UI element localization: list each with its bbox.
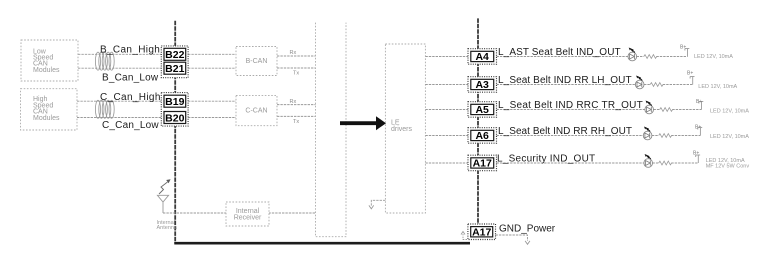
wire B_Can_High module to B22: [78, 53, 164, 55]
svg-text:Tx: Tx: [293, 119, 299, 125]
wire B22 to B-CAN: [188, 53, 236, 55]
wire GND pin to chassis ground: [496, 235, 528, 241]
ground (LE drivers): [369, 205, 374, 208]
wire LE drivers to A3: [425, 84, 468, 86]
svg-text:A3: A3: [475, 79, 489, 91]
internal receiver block: [226, 202, 269, 226]
svg-text:Antenna: Antenna: [157, 225, 178, 231]
pin B22: [164, 48, 186, 60]
antenna RF squiggle arrow: [159, 182, 168, 194]
module box High Speed CAN Modules: [21, 89, 78, 130]
power terminal B+ (row 1): [685, 49, 689, 57]
row A17 output wire: [497, 162, 699, 164]
twisted pair symbol C-CAN: [95, 100, 114, 118]
svg-text:B+: B+: [696, 99, 702, 105]
svg-text:C_Can_Low: C_Can_Low: [102, 120, 159, 131]
wire LE drivers to A6: [425, 135, 468, 137]
LED D2: [635, 76, 644, 89]
svg-text:Rx: Rx: [290, 50, 297, 56]
svg-text:LED 12V, 10mA: LED 12V, 10mA: [698, 84, 737, 90]
wire LE drivers to A5: [425, 109, 468, 111]
svg-text:A4: A4: [475, 51, 489, 63]
svg-text:A17: A17: [473, 158, 492, 170]
svg-text:LED 12V, 10mA: LED 12V, 10mA: [710, 134, 749, 140]
resistor R3: [660, 108, 673, 112]
svg-text:Tx: Tx: [293, 71, 299, 77]
svg-text:LED 12V, 10mA: LED 12V, 10mA: [710, 108, 749, 114]
svg-text:GND_Power: GND_Power: [499, 224, 556, 235]
pin B20: [164, 112, 186, 124]
module box Low Speed CAN Modules: [21, 40, 78, 81]
svg-text:L_Seat Belt IND RR RH_OUT: L_Seat Belt IND RR RH_OUT: [498, 126, 632, 137]
connector pin A4: [468, 49, 497, 64]
row A3 output wire: [497, 84, 693, 86]
connector B22/B21 outer shell: [161, 46, 188, 78]
connector pin A5: [468, 102, 497, 118]
svg-text:Rx: Rx: [290, 99, 297, 105]
svg-text:C_Can_High: C_Can_High: [100, 92, 161, 103]
row A5 output wire: [497, 109, 702, 111]
svg-text:B-CAN: B-CAN: [246, 58, 268, 65]
LED D3: [645, 101, 654, 114]
svg-text:A17: A17: [472, 227, 491, 239]
thick bottom ground rail: [174, 242, 470, 245]
LED D4: [643, 127, 652, 140]
left ECU bus line: [174, 21, 176, 244]
power terminal B+ (row 3): [699, 102, 703, 110]
wire B_Can_Low module to B21: [78, 67, 164, 69]
svg-text:B+: B+: [695, 124, 701, 130]
resistor R2: [650, 83, 663, 87]
gauge mark left of GND pin: [463, 234, 467, 240]
row A6 output wire: [497, 135, 701, 137]
LE drivers block: [385, 44, 425, 213]
wire B-CAN Rx: [277, 55, 316, 57]
svg-text:Receiver: Receiver: [234, 214, 262, 221]
micom block (tall dashed): [316, 23, 347, 237]
resistor R4: [659, 134, 672, 138]
svg-text:L_AST Seat Belt IND_OUT: L_AST Seat Belt IND_OUT: [498, 47, 621, 58]
svg-text:C-CAN: C-CAN: [245, 108, 267, 115]
wire LE drivers to A4: [425, 56, 468, 58]
resistor R1: [644, 55, 657, 59]
svg-text:Modules: Modules: [33, 115, 60, 122]
svg-text:B21: B21: [165, 63, 184, 75]
svg-text:B19: B19: [165, 96, 184, 108]
svg-text:L_Seat Belt IND RRC TR_OUT: L_Seat Belt IND RRC TR_OUT: [498, 100, 643, 111]
wire antenna to internal receiver: [163, 212, 316, 214]
svg-text:drivers: drivers: [391, 126, 413, 133]
svg-text:A5: A5: [475, 104, 489, 116]
connector pin A6: [468, 128, 497, 144]
svg-text:B_Can_Low: B_Can_Low: [102, 73, 159, 84]
wire C_Can_Low module to B20: [77, 117, 164, 119]
wire B21 to B-CAN: [188, 67, 236, 69]
pin B21: [164, 62, 186, 74]
wire C-CAN Rx: [277, 104, 316, 106]
svg-text:MF 12V 5W Conv: MF 12V 5W Conv: [706, 164, 750, 170]
svg-text:B22: B22: [165, 49, 184, 61]
wire C-CAN Tx: [277, 115, 316, 117]
wire LE drivers to A17: [425, 162, 468, 164]
twisted pair symbol B-CAN: [95, 52, 114, 70]
connector pin A17: [468, 155, 497, 171]
LED D5: [644, 154, 653, 167]
connector pin A17 (GND_Power): [468, 224, 496, 240]
svg-text:Modules: Modules: [33, 67, 60, 74]
LE drivers ground stub: [371, 200, 385, 206]
signal flow arrow: [340, 116, 386, 130]
wire B20 to C-CAN: [188, 117, 236, 119]
power terminal B+ (row 5): [696, 155, 700, 163]
svg-text:L_Seat Belt IND RR LH_OUT: L_Seat Belt IND RR LH_OUT: [498, 75, 632, 86]
svg-text:B_Can_High: B_Can_High: [100, 45, 160, 56]
svg-text:LED 12V, 10mA: LED 12V, 10mA: [694, 54, 733, 60]
LED D1: [628, 48, 637, 61]
resistor R5: [659, 161, 672, 165]
power terminal B+ (row 2): [690, 77, 694, 85]
svg-text:L_Security IND_OUT: L_Security IND_OUT: [497, 154, 595, 165]
svg-text:A6: A6: [475, 130, 489, 142]
pin B19: [164, 95, 186, 107]
power terminal B+ (row 4): [698, 128, 702, 136]
antenna: [157, 195, 168, 213]
svg-text:B+: B+: [680, 45, 686, 51]
right ECU bus line: [477, 18, 479, 225]
row A4 output wire: [497, 56, 688, 58]
svg-text:B+: B+: [687, 70, 693, 76]
C-CAN block: [236, 95, 277, 125]
wire B-CAN Tx: [277, 67, 316, 69]
ground (chassis): [525, 241, 530, 244]
connector B19/B20 outer shell: [161, 93, 188, 127]
svg-text:B20: B20: [165, 112, 184, 124]
connector pin A3: [468, 77, 497, 93]
wire C_Can_High module to B19: [77, 100, 164, 102]
wire B19 to C-CAN: [188, 100, 236, 102]
B-CAN block: [236, 47, 277, 76]
svg-text:B+: B+: [693, 150, 699, 156]
